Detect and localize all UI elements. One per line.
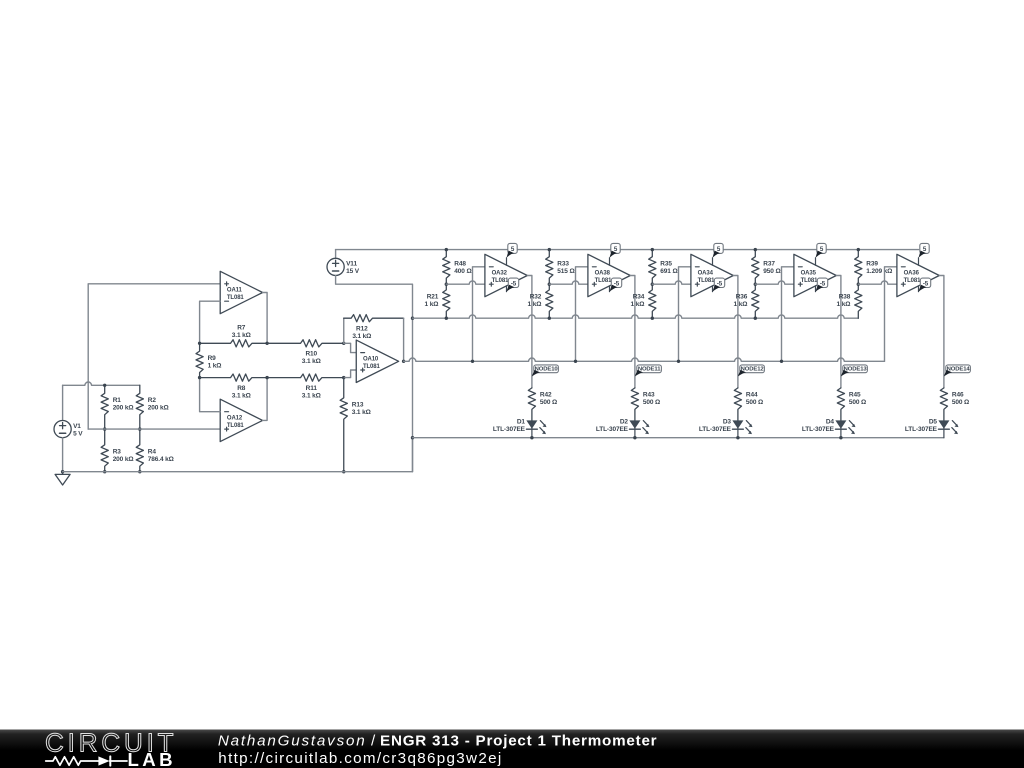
- svg-text:1 kΩ: 1 kΩ: [425, 301, 439, 308]
- svg-text:OA35: OA35: [801, 271, 817, 277]
- junction R1/R3 node: [103, 427, 106, 430]
- junction LED rail start: [411, 436, 414, 439]
- svg-text:LTL-307EE: LTL-307EE: [596, 426, 629, 433]
- junction R13 bottom: [342, 470, 345, 473]
- resistor R36 (1 k&#937;): [734, 284, 759, 318]
- wire OA11 output drop: [263, 293, 268, 344]
- voltage source V11 (15 V): [327, 258, 360, 275]
- svg-text:TL081: TL081: [492, 278, 510, 284]
- svg-text:R12: R12: [356, 326, 368, 333]
- svg-text:http://circuitlab.com/cr3q86pg: http://circuitlab.com/cr3q86pg3w2ej: [218, 750, 502, 767]
- svg-text:R7: R7: [237, 325, 246, 332]
- net flag 5 on OA35 V+: [816, 243, 827, 257]
- svg-text:D2: D2: [620, 418, 629, 425]
- node flag NODE14: [944, 365, 970, 377]
- wire OA35 - input drop: [782, 267, 794, 362]
- resistor R8 (3.1 k&#937;): [200, 374, 268, 400]
- net flag 5 on OA38 V+: [610, 243, 621, 257]
- net flag 5 on OA34 V+: [713, 243, 724, 257]
- svg-text:R38: R38: [839, 294, 851, 301]
- svg-text:R42: R42: [540, 392, 552, 399]
- svg-text:R46: R46: [952, 392, 964, 399]
- resistor R7 (3.1 k&#937;): [200, 325, 268, 347]
- wire OA12 output rise: [263, 378, 268, 421]
- svg-text:R43: R43: [643, 392, 655, 399]
- resistor R11 (3.1 k&#937;): [267, 374, 344, 400]
- resistor R34 (1 k&#937;): [631, 284, 656, 318]
- power pin stub V+ OA36: [918, 258, 920, 265]
- svg-text:LTL-307EE: LTL-307EE: [493, 426, 526, 433]
- svg-text:D5: D5: [929, 418, 938, 425]
- svg-text:OA10: OA10: [363, 356, 379, 362]
- node flag NODE12: [738, 365, 764, 377]
- svg-text:R2: R2: [148, 397, 157, 404]
- node flag NODE11: [635, 365, 661, 377]
- junction - input on signal rail 3: [780, 360, 783, 363]
- junction R1 top: [103, 384, 106, 387]
- svg-text:NODE13: NODE13: [844, 367, 868, 373]
- junction V1/ground rail: [61, 470, 64, 473]
- junction R11 / R13 / OA10 +: [342, 376, 345, 379]
- svg-text:3.1 kΩ: 3.1 kΩ: [352, 409, 371, 416]
- net flag -5 on OA36 V-: [919, 278, 931, 292]
- svg-text:OA34: OA34: [698, 271, 714, 277]
- svg-text:R34: R34: [633, 294, 645, 301]
- junction R48 top: [445, 248, 448, 251]
- op-amp OA10 (TL081): [356, 340, 398, 382]
- wire R12 to OA10 output: [403, 318, 405, 361]
- wire OA32 - input drop: [473, 267, 485, 362]
- svg-text:3.1 kΩ: 3.1 kΩ: [232, 332, 251, 339]
- junction R39 top: [857, 248, 860, 251]
- svg-text:500 Ω: 500 Ω: [643, 399, 660, 406]
- wire OA12 - input: [200, 378, 221, 412]
- svg-text:R32: R32: [530, 294, 542, 301]
- footer bar: [0, 730, 1024, 768]
- wire V11 top to +15V rail: [335, 250, 337, 259]
- junction R10 / R12 / OA10 -: [342, 342, 345, 345]
- svg-text:NathanGustavson / ENGR 313 - P: NathanGustavson / ENGR 313 - Project 1 T…: [218, 733, 657, 750]
- svg-text:NODE10: NODE10: [535, 367, 559, 373]
- resistor R44 (500 &#937;): [734, 388, 763, 421]
- wire R12 feedback left riser: [343, 318, 345, 343]
- junction - input on signal rail 0: [471, 360, 474, 363]
- svg-text:TL081: TL081: [904, 278, 922, 284]
- net flag -5 on OA38 V-: [610, 278, 622, 292]
- svg-text:TL081: TL081: [363, 364, 381, 370]
- resistor R45 (500 &#937;): [837, 388, 866, 421]
- svg-text:V1: V1: [73, 423, 81, 430]
- wire OA34 output chain: [733, 276, 738, 388]
- junction D3 cathode on LED rail: [736, 436, 739, 439]
- svg-text:D4: D4: [826, 418, 835, 425]
- svg-text:-5: -5: [614, 280, 620, 287]
- CircuitLab logo mark (resistor + diode): [46, 756, 127, 765]
- resistor R46 (500 &#937;): [940, 388, 969, 421]
- junction R21 bottom: [445, 317, 448, 320]
- LED D4 (LTL-307EE): [802, 418, 856, 437]
- power pin stub V- OA34: [712, 286, 714, 292]
- svg-text:R39: R39: [866, 260, 878, 267]
- net flag -5 on OA32 V-: [507, 278, 519, 292]
- junction R37 top: [754, 248, 757, 251]
- wire OA36 output chain: [939, 276, 944, 388]
- resistor R39 (1.209 k&#937;): [855, 250, 893, 285]
- wire jog to OA10 + input: [344, 370, 357, 378]
- junction R33 top: [548, 248, 551, 251]
- resistor R38 (1 k&#937;): [837, 284, 862, 318]
- wire V1 plus to R1/R2 tops (hops over OA11 + riser): [63, 382, 140, 385]
- wire OA35 output chain: [836, 276, 841, 388]
- svg-text:R36: R36: [736, 294, 748, 301]
- wire OA11 - input: [200, 301, 221, 343]
- power pin stub V- OA35: [815, 286, 817, 292]
- svg-text:R9: R9: [208, 355, 217, 362]
- junction R9 top: [198, 342, 201, 345]
- wire V1 bottom to ground rail: [62, 438, 64, 472]
- wire V11 bottom to mid-rail riser: [336, 276, 413, 472]
- svg-text:OA12: OA12: [227, 415, 243, 421]
- LED D1 (LTL-307EE): [493, 418, 547, 437]
- svg-text:786.4 kΩ: 786.4 kΩ: [148, 456, 174, 463]
- svg-text:R11: R11: [306, 385, 318, 392]
- svg-text:-5: -5: [717, 280, 723, 287]
- junction - input on signal rail 2: [677, 360, 680, 363]
- LED D5 (LTL-307EE): [905, 418, 959, 437]
- svg-text:R8: R8: [237, 385, 246, 392]
- net flag -5 on OA35 V-: [816, 278, 828, 292]
- wire +15V top rail: [336, 249, 919, 251]
- svg-text:OA38: OA38: [595, 271, 611, 277]
- wire OA38 - input drop: [576, 267, 588, 362]
- svg-text:TL081: TL081: [698, 278, 716, 284]
- junction R34 bottom: [651, 317, 654, 320]
- svg-text:TL081: TL081: [595, 278, 613, 284]
- resistor R43 (500 &#937;): [631, 388, 660, 421]
- svg-text:515 Ω: 515 Ω: [557, 268, 574, 275]
- junction D1 cathode on LED rail: [530, 436, 533, 439]
- svg-text:D1: D1: [517, 418, 526, 425]
- svg-text:3.1 kΩ: 3.1 kΩ: [232, 393, 251, 400]
- wire ground rail: [63, 438, 413, 472]
- svg-text:TL081: TL081: [227, 423, 245, 429]
- junction R4 bottom: [138, 470, 141, 473]
- junction D4 cathode on LED rail: [839, 436, 842, 439]
- wire LED cathode rail: [413, 437, 944, 439]
- resistor R35 (691 &#937;): [649, 250, 678, 285]
- svg-text:D3: D3: [723, 418, 732, 425]
- voltage source V1 (5 V): [54, 420, 83, 437]
- svg-text:OA11: OA11: [227, 288, 243, 294]
- junction divider node 2: [651, 283, 654, 286]
- resistor R13 (3.1 k&#937;): [340, 378, 371, 472]
- svg-text:NODE11: NODE11: [638, 367, 661, 373]
- svg-text:NODE14: NODE14: [947, 367, 971, 373]
- svg-text:OA32: OA32: [492, 271, 508, 277]
- svg-text:LTL-307EE: LTL-307EE: [699, 426, 732, 433]
- svg-text:R4: R4: [148, 449, 157, 456]
- resistor R42 (500 &#937;): [528, 388, 557, 421]
- wire jog to OA10 - input: [344, 343, 357, 352]
- resistor R10 (3.1 k&#937;): [267, 340, 344, 366]
- footer url: [218, 750, 502, 767]
- resistor R37 (950 &#937;): [752, 250, 781, 285]
- wire OA35 + input: [755, 281, 794, 284]
- svg-text:3.1 kΩ: 3.1 kΩ: [302, 358, 321, 365]
- junction OA12 out / R8: [265, 376, 268, 379]
- svg-text:R3: R3: [113, 449, 122, 456]
- junction OA10 output: [402, 360, 405, 363]
- power pin stub V+ OA38: [609, 258, 611, 265]
- svg-text:V11: V11: [346, 261, 357, 268]
- node flag NODE13: [841, 365, 867, 377]
- junction divider node 3: [754, 283, 757, 286]
- svg-text:1 kΩ: 1 kΩ: [734, 301, 748, 308]
- LED D3 (LTL-307EE): [699, 418, 753, 437]
- op-amp OA36 (TL081): [897, 254, 939, 296]
- svg-text:200 kΩ: 200 kΩ: [113, 456, 134, 463]
- node flag NODE10: [532, 365, 558, 377]
- svg-text:500 Ω: 500 Ω: [849, 399, 866, 406]
- svg-text:NODE12: NODE12: [741, 367, 765, 373]
- resistor R3 (200 k&#937;): [101, 429, 133, 472]
- svg-text:-5: -5: [923, 280, 929, 287]
- junction R3 bottom: [103, 470, 106, 473]
- wire OA36 + input: [858, 281, 897, 284]
- svg-text:3.1 kΩ: 3.1 kΩ: [302, 393, 321, 400]
- svg-text:R35: R35: [660, 260, 672, 267]
- power pin stub V+ OA35: [815, 258, 817, 265]
- junction - input on signal rail 1: [574, 360, 577, 363]
- op-amp OA32 (TL081): [485, 254, 527, 296]
- resistor R32 (1 k&#937;): [528, 284, 553, 318]
- svg-text:1 kΩ: 1 kΩ: [837, 301, 851, 308]
- junction R9 bottom: [198, 376, 201, 379]
- svg-text:R21: R21: [427, 294, 439, 301]
- svg-text:OA36: OA36: [904, 271, 920, 277]
- wire OA32 + input: [446, 281, 485, 284]
- junction R2/R4 node: [138, 427, 141, 430]
- power pin stub V+ OA32: [506, 258, 508, 265]
- wire OA38 + input: [549, 281, 588, 284]
- wire mid rail: [413, 315, 859, 318]
- ground symbol: [55, 472, 70, 485]
- power pin stub V+ OA34: [712, 258, 714, 265]
- op-amp OA12 (TL081): [220, 399, 262, 441]
- net flag 5 on OA36 V+: [919, 243, 930, 257]
- junction divider node 1: [548, 283, 551, 286]
- svg-text:R44: R44: [746, 392, 758, 399]
- svg-text:5 V: 5 V: [73, 430, 83, 437]
- svg-text:691 Ω: 691 Ω: [660, 268, 677, 275]
- net flag 5 on OA32 V+: [507, 243, 518, 257]
- svg-text:R10: R10: [305, 351, 317, 358]
- wire OA36 - input drop: [885, 267, 897, 362]
- svg-text:3.1 kΩ: 3.1 kΩ: [352, 333, 371, 340]
- svg-text:TL081: TL081: [801, 278, 819, 284]
- footer title: [218, 733, 657, 750]
- svg-text:R45: R45: [849, 392, 861, 399]
- junction R36 bottom: [754, 317, 757, 320]
- power pin stub V- OA32: [506, 286, 508, 292]
- svg-text:400 Ω: 400 Ω: [454, 268, 471, 275]
- svg-text:1 kΩ: 1 kΩ: [208, 362, 222, 369]
- wire OA34 + input: [652, 281, 691, 284]
- LED D2 (LTL-307EE): [596, 418, 650, 437]
- svg-text:500 Ω: 500 Ω: [952, 399, 969, 406]
- svg-text:1 kΩ: 1 kΩ: [631, 301, 645, 308]
- svg-text:200 kΩ: 200 kΩ: [148, 405, 169, 412]
- junction mid rail start: [411, 317, 414, 320]
- resistor R21 (1 k&#937;): [425, 284, 450, 318]
- svg-text:R13: R13: [352, 402, 364, 409]
- svg-text:LTL-307EE: LTL-307EE: [905, 426, 938, 433]
- wire V1 top riser: [62, 385, 64, 420]
- power pin stub V- OA38: [609, 286, 611, 292]
- op-amp OA34 (TL081): [691, 254, 733, 296]
- junction R32 bottom: [548, 317, 551, 320]
- svg-text:LTL-307EE: LTL-307EE: [802, 426, 835, 433]
- junction R35 top: [651, 248, 654, 251]
- wire OA32 output chain: [527, 276, 532, 388]
- wire signal rail (OA10 output): [404, 358, 885, 361]
- resistor R4 (786.4 k&#937;): [136, 429, 174, 472]
- junction D2 cathode on LED rail: [633, 436, 636, 439]
- svg-text:R33: R33: [557, 260, 569, 267]
- resistor R2 (200 k&#937;): [136, 385, 168, 429]
- resistor R1 (200 k&#937;): [101, 385, 133, 429]
- op-amp OA11 (TL081): [220, 271, 262, 313]
- svg-text:-5: -5: [820, 280, 826, 287]
- wire bridge mid row to OA12 + input: [88, 428, 220, 430]
- op-amp OA38 (TL081): [588, 254, 630, 296]
- svg-text:1.209 kΩ: 1.209 kΩ: [866, 268, 892, 275]
- junction divider node 4: [857, 283, 860, 286]
- resistor R12 (3.1 k&#937;): [344, 315, 404, 341]
- svg-text:1 kΩ: 1 kΩ: [528, 301, 542, 308]
- CircuitLab logo text CIRCUIT: [45, 728, 177, 758]
- CircuitLab logo text LAB: [128, 749, 176, 768]
- junction OA11 out / R7: [265, 342, 268, 345]
- svg-text:200 kΩ: 200 kΩ: [113, 405, 134, 412]
- svg-text:R37: R37: [763, 260, 775, 267]
- svg-text:500 Ω: 500 Ω: [746, 399, 763, 406]
- power pin stub V- OA36: [918, 286, 920, 292]
- wire OA11 + input riser: [88, 284, 220, 429]
- svg-text:15 V: 15 V: [346, 268, 360, 275]
- svg-text:950 Ω: 950 Ω: [763, 268, 780, 275]
- svg-text:R48: R48: [454, 260, 466, 267]
- resistor R48 (400 &#937;): [443, 250, 472, 285]
- net flag -5 on OA34 V-: [713, 278, 725, 292]
- resistor R33 (515 &#937;): [546, 250, 575, 285]
- junction divider node 0: [445, 283, 448, 286]
- svg-text:LAB: LAB: [128, 749, 176, 768]
- svg-text:500 Ω: 500 Ω: [540, 399, 557, 406]
- resistor R9 (1 k&#937;): [196, 343, 221, 377]
- wire OA38 output chain: [630, 276, 635, 388]
- svg-text:R1: R1: [113, 397, 122, 404]
- svg-text:-5: -5: [511, 280, 517, 287]
- wire OA34 - input drop: [679, 267, 691, 362]
- svg-text:TL081: TL081: [227, 295, 245, 301]
- op-amp OA35 (TL081): [794, 254, 836, 296]
